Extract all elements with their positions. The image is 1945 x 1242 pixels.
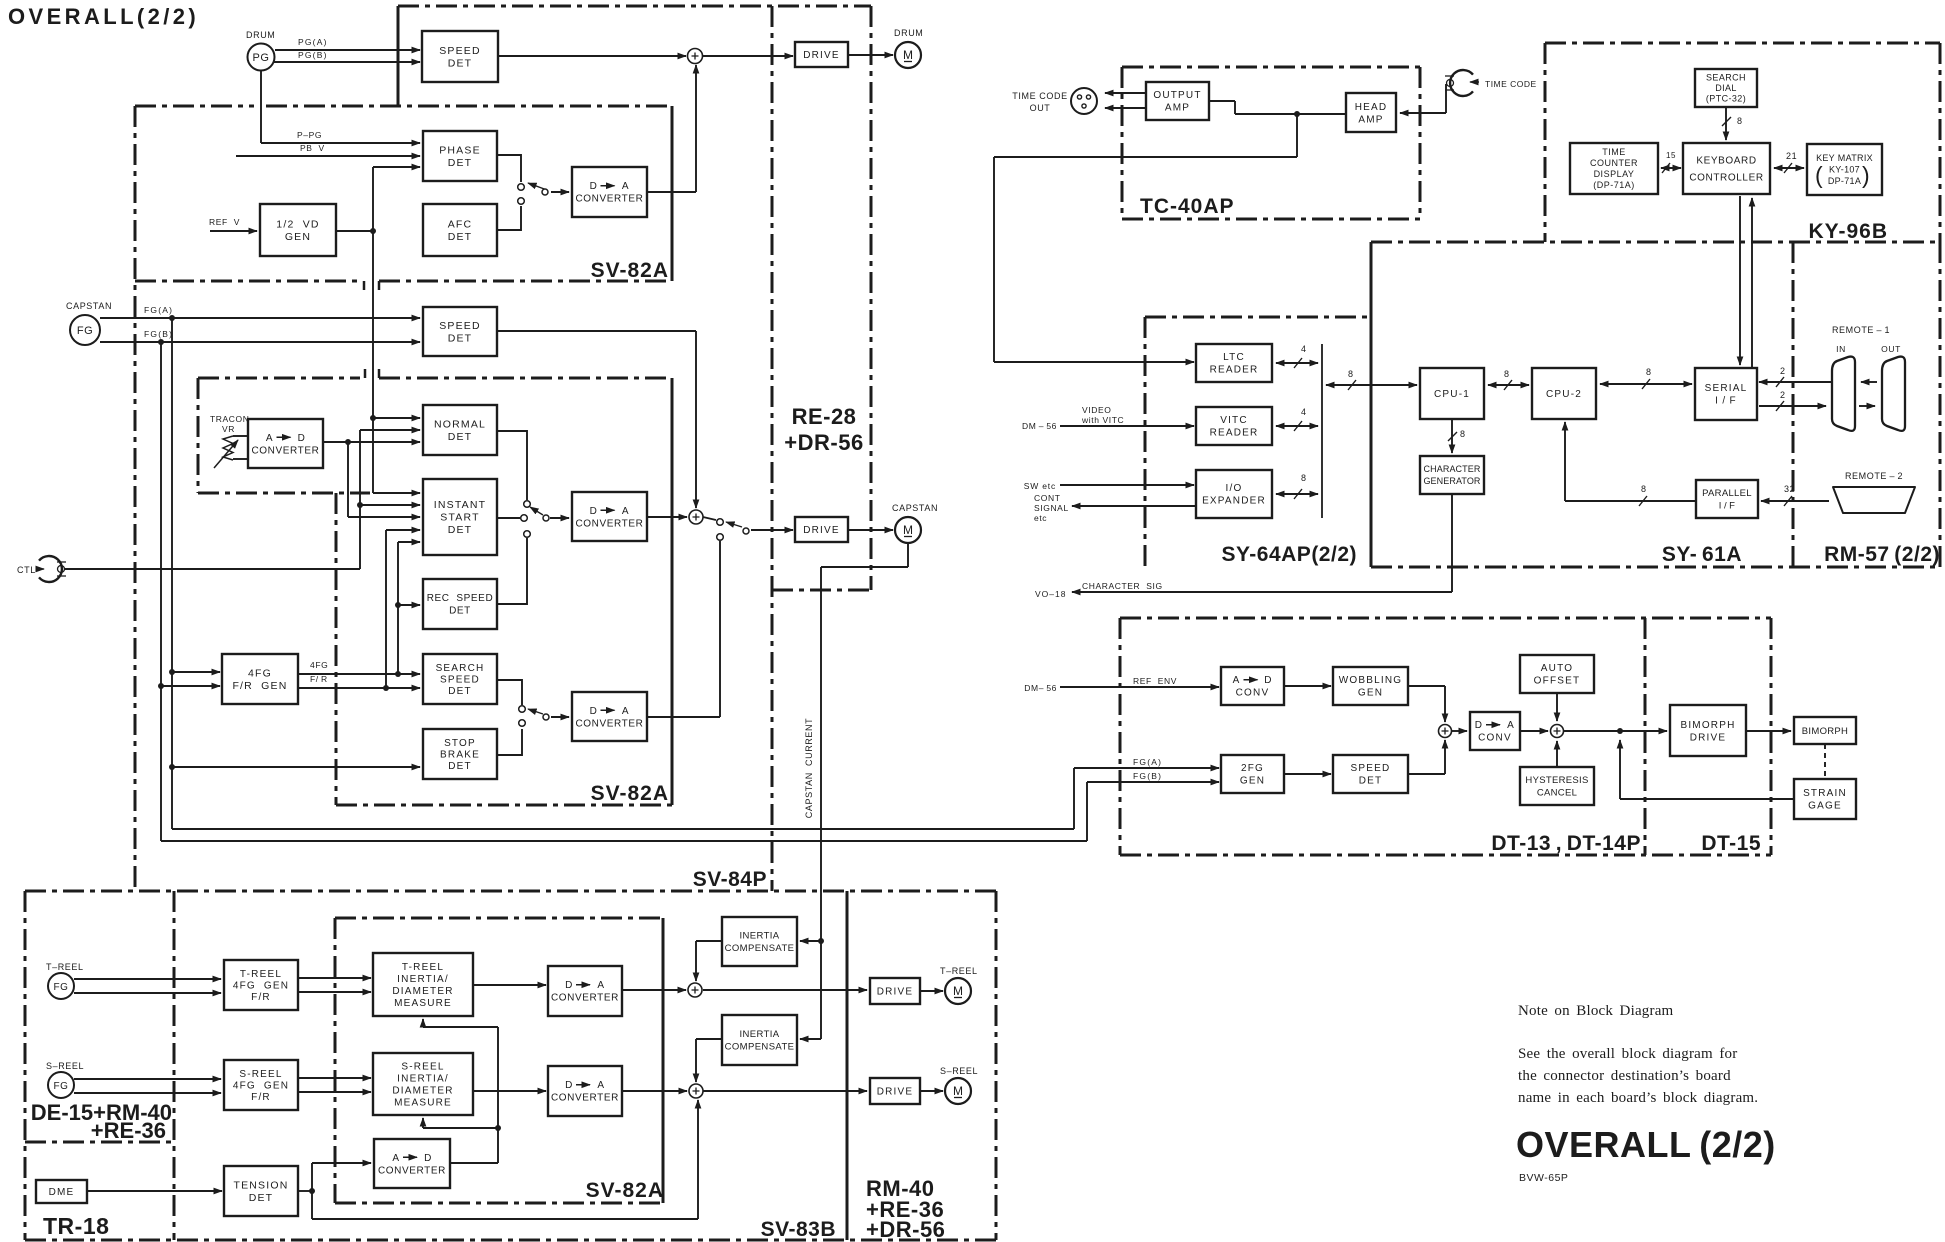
svg-text:2: 2 [1780,390,1786,400]
svg-text:SY-64AP(2/2): SY-64AP(2/2) [1221,543,1357,566]
svg-text:OVERALL(2/2): OVERALL(2/2) [8,4,199,29]
svg-text:DT-13 , DT-14P: DT-13 , DT-14P [1491,832,1641,855]
svg-text:DME: DME [49,1187,75,1198]
svg-text:IN: IN [1836,344,1846,354]
svg-text:FG: FG [77,325,93,337]
svg-text:FG(B): FG(B) [144,329,173,339]
svg-text:+RE-36: +RE-36 [91,1118,166,1143]
svg-text:F/ R: F/ R [310,674,328,684]
svg-text:with VITC: with VITC [1081,415,1124,425]
svg-text:name in each board’s block dia: name in each board’s block diagram. [1518,1090,1758,1106]
svg-text:CPU-1: CPU-1 [1434,389,1470,400]
svg-text:DT-15: DT-15 [1701,832,1761,855]
svg-text:T–REEL: T–REEL [940,966,978,976]
svg-text:TRACON: TRACON [210,414,250,424]
svg-text:4FG: 4FG [310,660,328,670]
svg-text:etc: etc [1034,513,1047,523]
svg-text:P–PG: P–PG [297,130,322,140]
svg-text:+DR-56: +DR-56 [784,430,863,455]
svg-text:KY-96B: KY-96B [1808,220,1888,243]
svg-text:BIMORPH: BIMORPH [1802,726,1848,737]
svg-text:OVERALL (2/2): OVERALL (2/2) [1516,1124,1776,1165]
svg-text:M: M [903,523,913,537]
svg-text:4: 4 [1301,407,1307,417]
svg-text:DRUM: DRUM [246,30,275,40]
svg-text:REF ENV: REF ENV [1133,676,1177,686]
svg-text:CTL: CTL [17,565,36,575]
svg-text:PG(B): PG(B) [298,50,328,60]
svg-text:the connector destination’s bo: the connector destination’s board [1518,1068,1731,1084]
svg-text:): ) [1862,162,1870,188]
svg-text:CAPSTAN CURRENT: CAPSTAN CURRENT [804,718,814,818]
svg-text:CPU-2: CPU-2 [1546,389,1582,400]
svg-text:DRIVE: DRIVE [803,525,840,536]
svg-text:CAPSTAN: CAPSTAN [66,301,112,311]
svg-text:8: 8 [1504,369,1510,379]
svg-text:PG(A): PG(A) [298,37,328,47]
svg-text:8: 8 [1737,116,1743,126]
svg-text:FG: FG [54,1081,69,1092]
svg-text:HEADAMP: HEADAMP [1355,102,1388,126]
svg-text:2: 2 [1780,366,1786,376]
svg-text:SIGNAL: SIGNAL [1034,503,1069,513]
svg-text:2FGGEN: 2FGGEN [1240,763,1265,787]
svg-text:CAPSTAN: CAPSTAN [892,503,938,513]
svg-text:AFCDET: AFCDET [448,218,473,243]
svg-text:STRAINGAGE: STRAINGAGE [1803,788,1847,812]
svg-text:SV-84P: SV-84P [693,868,767,891]
svg-text:FG(A): FG(A) [1133,757,1162,767]
svg-text:TIME CODE: TIME CODE [1012,91,1067,101]
svg-text:FG(B): FG(B) [1133,771,1162,781]
svg-text:BVW-65P: BVW-65P [1519,1172,1568,1184]
svg-text:CHARACTER SIG: CHARACTER SIG [1082,581,1163,591]
svg-text:DM – 56: DM – 56 [1022,421,1057,431]
svg-text:TIME CODE: TIME CODE [1485,79,1537,89]
svg-text:TR-18: TR-18 [43,1213,109,1239]
svg-text:SY- 61A: SY- 61A [1662,543,1742,566]
svg-text:8: 8 [1348,369,1354,379]
svg-text:OUT: OUT [1881,344,1901,354]
svg-text:S-REELINERTIA/DIAMETERMEASURE: S-REELINERTIA/DIAMETERMEASURE [392,1062,453,1109]
svg-text:M: M [953,984,963,998]
svg-text:DRIVE: DRIVE [803,50,840,61]
svg-text:8: 8 [1301,473,1307,483]
svg-text:VR: VR [222,424,235,434]
svg-text:FG: FG [54,982,69,993]
svg-text:SV-82A: SV-82A [586,1179,664,1202]
svg-text:RE-28: RE-28 [792,404,857,429]
svg-text:PB V: PB V [300,143,325,153]
svg-text:21: 21 [1786,151,1797,161]
svg-text:M: M [903,48,913,62]
svg-text:REF V: REF V [209,217,240,227]
svg-text:DRIVE: DRIVE [877,987,914,998]
svg-text:32: 32 [1784,484,1795,494]
svg-text:SV-82A: SV-82A [591,259,669,282]
svg-text:TC-40AP: TC-40AP [1140,195,1235,218]
svg-text:SV-83B: SV-83B [761,1218,836,1241]
svg-text:8: 8 [1460,429,1466,439]
svg-text:SV-82A: SV-82A [591,782,669,805]
svg-text:S–REEL: S–REEL [940,1066,978,1076]
svg-text:OUT: OUT [1030,103,1051,113]
svg-text:DRIVE: DRIVE [877,1087,914,1098]
svg-text:S–REEL: S–REEL [46,1061,84,1071]
svg-text:15: 15 [1666,151,1676,160]
svg-text:SW etc: SW etc [1024,481,1056,491]
svg-text:+DR-56: +DR-56 [866,1217,945,1242]
svg-text:REMOTE – 1: REMOTE – 1 [1832,325,1890,335]
svg-text:4: 4 [1301,344,1307,354]
svg-text:8: 8 [1641,484,1647,494]
svg-text:VIDEO: VIDEO [1082,405,1111,415]
svg-text:PG: PG [253,52,270,64]
svg-text:M: M [953,1084,963,1098]
svg-text:RM-57 (2/2): RM-57 (2/2) [1824,543,1940,566]
svg-text:T–REEL: T–REEL [46,962,84,972]
svg-text:DRUM: DRUM [894,28,923,38]
svg-text:VO–18: VO–18 [1035,589,1066,599]
svg-text:DM– 56: DM– 56 [1024,683,1057,693]
svg-text:(: ( [1815,162,1823,188]
svg-text:Note on Block Diagram: Note on Block Diagram [1518,1003,1674,1019]
svg-text:8: 8 [1646,367,1652,377]
svg-text:CONT: CONT [1034,493,1060,503]
svg-text:FG(A): FG(A) [144,305,173,315]
svg-text:REMOTE – 2: REMOTE – 2 [1845,471,1903,481]
svg-text:See the overall block diagram: See the overall block diagram for [1518,1046,1737,1062]
